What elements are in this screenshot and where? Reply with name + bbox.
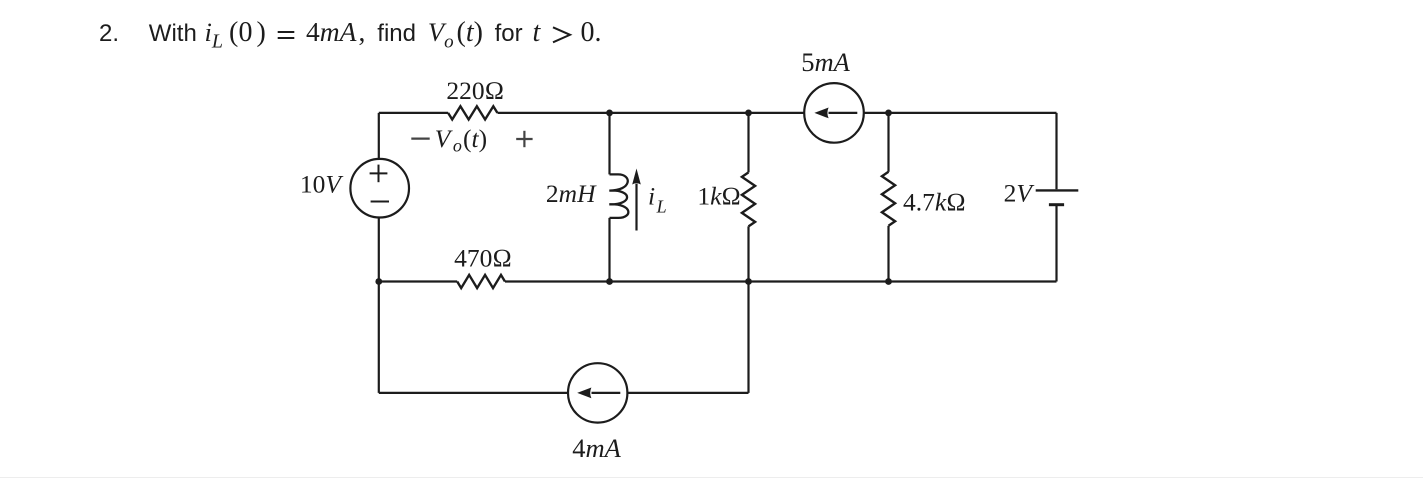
svg-text:2.: 2. xyxy=(99,20,119,47)
svg-text:10V: 10V xyxy=(300,170,345,199)
svg-text:t: t xyxy=(533,17,542,48)
svg-text:iL: iL xyxy=(205,17,224,53)
svg-text:iL: iL xyxy=(648,182,667,217)
svg-text:2mH: 2mH xyxy=(546,179,597,208)
svg-text:find: find xyxy=(377,20,416,47)
svg-text:Vo: Vo xyxy=(435,124,462,156)
svg-text:With: With xyxy=(149,20,197,47)
svg-text:4mA: 4mA xyxy=(572,433,621,463)
svg-text:0.: 0. xyxy=(581,17,602,48)
svg-text:for: for xyxy=(495,20,523,47)
svg-text:2V: 2V xyxy=(1004,179,1036,208)
svg-text:1kΩ: 1kΩ xyxy=(697,182,741,211)
svg-text:5mA: 5mA xyxy=(801,47,850,77)
svg-text:220Ω: 220Ω xyxy=(446,76,504,105)
svg-text:470Ω: 470Ω xyxy=(454,244,512,273)
svg-text:(t): (t) xyxy=(463,124,487,153)
svg-text:(t): (t) xyxy=(457,17,483,48)
svg-text:4mA: 4mA xyxy=(306,16,357,47)
svg-text:Vo: Vo xyxy=(428,17,454,53)
svg-text:,: , xyxy=(359,16,366,47)
svg-text:(0): (0) xyxy=(229,17,266,48)
svg-text:4.7kΩ: 4.7kΩ xyxy=(903,188,966,217)
